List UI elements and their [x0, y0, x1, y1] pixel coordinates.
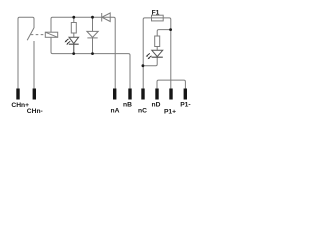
junction top rail / D1 branch: [91, 16, 94, 19]
terminal pin CHn-: [33, 89, 36, 100]
diode D1 (suppressor, on box right edge): [87, 17, 98, 53]
svg-text:F1: F1: [152, 10, 160, 17]
svg-text:P1+: P1+: [164, 108, 176, 115]
terminal pin P1-: [184, 89, 187, 100]
svg-text:nB: nB: [123, 102, 132, 109]
fuse F1 body: [152, 15, 164, 21]
terminal pin nA: [113, 89, 116, 100]
diode D2 (series, on top rail): [102, 13, 111, 22]
junction bottom rail / LED1 branch: [72, 52, 75, 55]
terminal pin CHn+: [16, 89, 19, 100]
LED1 indicator: [64, 37, 78, 44]
terminal pin nC: [141, 89, 144, 100]
fuse F1 rail: [143, 18, 171, 89]
svg-text:nC: nC: [138, 107, 147, 114]
junction nC rail / LED2 return: [142, 64, 145, 67]
junction fuse output / R2 branch: [169, 28, 172, 31]
svg-text:CHn-: CHn-: [27, 108, 43, 115]
junction top rail / R1 branch: [72, 16, 75, 19]
wire: top rail to nA riser: [53, 17, 116, 88]
wire: bottom rail to nB riser: [53, 54, 131, 89]
wire: LED1 cathode to bottom rail: [73, 44, 75, 54]
terminal pin P1+: [169, 89, 172, 100]
terminal pin nD: [155, 89, 158, 100]
junction bottom rail / D1 branch: [91, 52, 94, 55]
resistor R1: [71, 17, 76, 37]
dashed actuation link: [31, 34, 46, 36]
terminal pin nB: [128, 89, 131, 100]
wire: box left edge through coil: [51, 17, 53, 32]
relay coil K1: [45, 32, 57, 37]
svg-text:nD: nD: [152, 102, 161, 109]
svg-text:nA: nA: [111, 107, 120, 114]
bus: nD to P1-: [157, 80, 185, 88]
wire: LED2 cathode jog to left rail: [143, 57, 157, 66]
svg-text:P1-: P1-: [180, 102, 190, 109]
LED2 indicator: [146, 50, 163, 59]
resistor R2: [155, 36, 160, 50]
wire: branch from fuse output to resistor R2: [157, 30, 170, 36]
switch contact S1 (channel input): [18, 17, 34, 88]
